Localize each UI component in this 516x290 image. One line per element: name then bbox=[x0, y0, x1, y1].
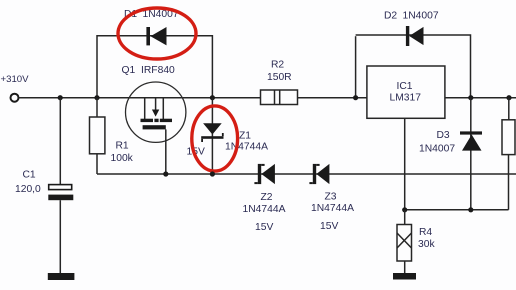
svg-text:IC1: IC1 bbox=[397, 81, 413, 92]
svg-text:1N4744A: 1N4744A bbox=[225, 142, 268, 153]
node junction (213,97) bbox=[210, 95, 215, 100]
svg-text:D2: D2 bbox=[384, 11, 397, 22]
wire R1 branch upper bbox=[96, 98, 98, 117]
wire D3 branch bbox=[470, 98, 472, 210]
node junction (405.5,209.4) bbox=[402, 207, 407, 212]
svg-text:1N4744A: 1N4744A bbox=[311, 203, 354, 214]
svg-text:100k: 100k bbox=[111, 153, 134, 164]
svg-text:150R: 150R bbox=[267, 72, 292, 83]
wire IC1 adj pin bbox=[404, 118, 406, 210]
wire C1 branch lower bbox=[59, 200, 61, 273]
svg-text:+310V: +310V bbox=[1, 74, 30, 85]
svg-text:Z1: Z1 bbox=[239, 131, 251, 142]
node junction (166,172.5) bbox=[163, 171, 168, 176]
svg-text:IRF840: IRF840 bbox=[141, 65, 175, 76]
wire right resistor bottom lead bbox=[508, 155, 510, 210]
svg-text:120,0: 120,0 bbox=[15, 184, 41, 195]
diode D1 bbox=[146, 27, 166, 45]
terminal input bbox=[11, 94, 19, 102]
zener Z1 bbox=[201, 123, 224, 142]
svg-text:D3: D3 bbox=[437, 130, 450, 141]
wire adj rail bbox=[405, 209, 509, 211]
node junction (213,172.5) bbox=[210, 171, 215, 176]
svg-text:Q1: Q1 bbox=[122, 65, 136, 76]
wire Q1 source lead bbox=[165, 129, 167, 174]
node junction (97,97) bbox=[94, 95, 99, 100]
svg-text:1N4744A: 1N4744A bbox=[243, 204, 286, 215]
svg-text:Z2: Z2 bbox=[261, 192, 273, 203]
svg-text:1N4007: 1N4007 bbox=[403, 11, 439, 22]
svg-text:1N4007: 1N4007 bbox=[419, 144, 455, 155]
wire R4 bottom lead bbox=[404, 261, 406, 273]
svg-text:C1: C1 bbox=[23, 170, 36, 181]
wire right resistor top lead bbox=[508, 98, 510, 120]
transistor Q1 bbox=[126, 82, 186, 142]
ground (below C1) bbox=[48, 273, 75, 280]
capacitor C1 bbox=[48, 185, 73, 201]
svg-text:LM317: LM317 bbox=[390, 93, 422, 104]
svg-text:15V: 15V bbox=[320, 221, 338, 232]
resistor R2 bbox=[261, 90, 298, 105]
op-amp IC1 box bbox=[367, 66, 445, 118]
svg-text:R1: R1 bbox=[116, 141, 129, 152]
svg-text:R2: R2 bbox=[271, 60, 284, 71]
svg-text:Z3: Z3 bbox=[325, 192, 337, 203]
node junction (470.5,209.4) bbox=[468, 207, 473, 212]
wire C1 branch upper bbox=[59, 98, 61, 185]
wire R4 top lead bbox=[404, 210, 406, 225]
diode D2 bbox=[406, 26, 424, 46]
wire top rail left (terminal to R2) bbox=[19, 97, 261, 99]
wire D2 loop bbox=[356, 35, 471, 97]
resistor R1 bbox=[90, 117, 105, 154]
wire top rail mid (R2 to IC1) bbox=[298, 97, 367, 99]
zener Z3 bbox=[309, 164, 329, 184]
wire D2 loop left leg bbox=[355, 36, 357, 97]
svg-text:R4: R4 bbox=[419, 227, 432, 238]
node junction (470.5,97) bbox=[468, 95, 473, 100]
wire bottom rail bbox=[97, 173, 516, 175]
node junction (509,97) bbox=[506, 95, 511, 100]
highlight ellipse around D1 bbox=[118, 8, 196, 59]
svg-text:15V: 15V bbox=[255, 222, 273, 233]
wire R1 branch lower bbox=[96, 154, 98, 174]
wire top rail right (IC1 to edge) bbox=[445, 97, 516, 99]
highlight ellipse around Z1 bbox=[192, 106, 238, 171]
resistor R4 bbox=[397, 225, 412, 262]
ground (below R4) bbox=[393, 273, 416, 280]
wire Z1 branch bbox=[211, 98, 213, 174]
svg-text:30k: 30k bbox=[418, 239, 435, 250]
node junction (359.5,97) bbox=[353, 95, 358, 100]
node junction (59.5,97) bbox=[58, 95, 63, 100]
zener Z2 bbox=[254, 164, 275, 184]
diode D3 bbox=[460, 131, 482, 150]
wire D1 loop bbox=[97, 36, 212, 98]
resistor (right, unlabeled) bbox=[502, 120, 515, 155]
